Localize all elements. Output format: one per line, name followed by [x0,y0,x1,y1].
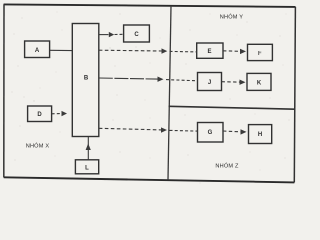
wire G to H (dashed arrow) [223,130,241,133]
box A [25,41,50,58]
box H [249,125,272,144]
outer frame right [294,7,295,183]
outer frame top [4,4,296,7]
svg-text:G: G [208,130,213,136]
outer frame bottom [4,177,295,182]
box B [72,24,99,137]
svg-text:B: B [84,76,89,82]
svg-text:NHÓM Z: NHÓM Z [215,163,239,170]
box E [197,43,223,58]
svg-text:A: A [35,48,40,54]
divider horizontal between NHOM Y and NHOM Z [169,106,295,109]
box L [75,160,98,174]
wire A to B (solid) [50,49,73,51]
divider vertical between NHOM X and right groups [168,6,171,180]
box J [198,73,222,91]
svg-text:NHÓM X: NHÓM X [26,142,50,149]
box K [247,73,271,90]
wire B to C (solid + arrow + dashes) [99,34,109,36]
svg-text:K: K [257,81,262,87]
outer frame left [3,4,5,177]
wire J to K (dashed arrow) [222,81,240,83]
box G [198,123,224,143]
wire L to B (vertical, arrow up) [87,137,89,160]
svg-text:F: F [258,51,262,57]
wire B to E (dashed with arrow before divider) [99,49,162,52]
svg-text:E: E [207,49,211,55]
wire B to J (solid with arrow before divider, dashed after) [99,78,158,79]
svg-text:L: L [85,165,89,171]
box F [248,44,273,60]
svg-text:H: H [258,132,262,138]
svg-text:D: D [37,112,42,118]
svg-text:J: J [208,80,211,86]
svg-text:NHÓM Y: NHÓM Y [220,14,244,21]
box D [28,106,52,122]
wire E to F (dashed arrow) [223,50,240,53]
svg-text:C: C [134,32,139,38]
wire B to G (dashed with arrow before divider) [99,128,161,130]
box C [124,25,150,42]
wire D to B (dashed with arrow) [52,113,62,115]
